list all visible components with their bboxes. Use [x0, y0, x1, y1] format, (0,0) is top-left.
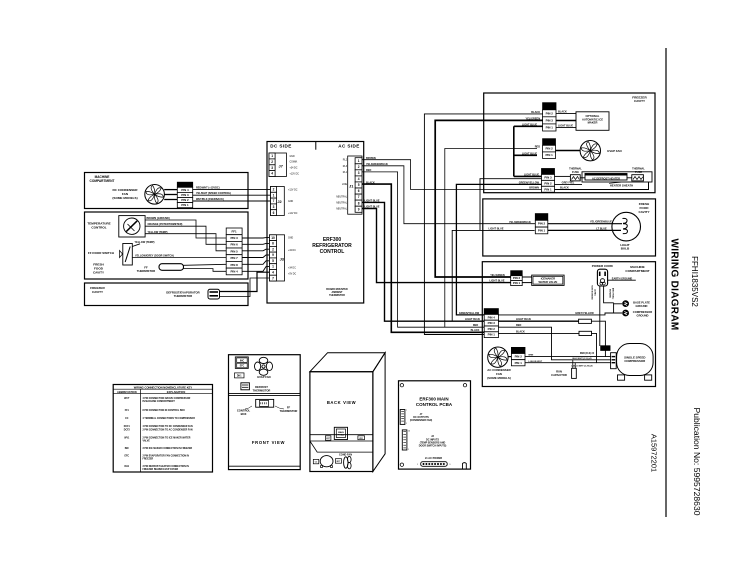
svg-text:BLACK: BLACK — [531, 111, 540, 114]
svg-text:(SOME MODELS): (SOME MODELS) — [112, 196, 137, 200]
svg-text:+34 DC: +34 DC — [288, 268, 296, 270]
svg-text:COMPRESSOR: COMPRESSOR — [624, 359, 646, 363]
svg-text:WV1: WV1 — [513, 271, 520, 275]
svg-text:LIGHT BLUE: LIGHT BLUE — [465, 318, 480, 321]
svg-text:BLACK: BLACK — [516, 330, 525, 333]
svg-text:THERMISTOR: THERMISTOR — [253, 388, 271, 392]
svg-text:BACK VIEW: BACK VIEW — [327, 400, 356, 405]
svg-text:IMC: IMC — [125, 448, 130, 450]
svg-text:YEL/WHT (SPEED CONTROL): YEL/WHT (SPEED CONTROL) — [196, 192, 231, 195]
svg-text:A15972201: A15972201 — [650, 434, 659, 472]
svg-text:+12V DC: +12V DC — [288, 213, 298, 215]
svg-text:GND: GND — [288, 201, 293, 203]
svg-text:2 PIN EVAPORATOR FAN CONNECTIO: 2 PIN EVAPORATOR FAN CONNECTION IN — [143, 455, 190, 458]
svg-text:AUTOMATIC ICE: AUTOMATIC ICE — [582, 117, 603, 121]
svg-text:PIN 3: PIN 3 — [181, 193, 189, 197]
svg-text:DC SIDE: DC SIDE — [270, 144, 291, 149]
svg-text:EFC: EFC — [546, 140, 553, 144]
svg-text:9: 9 — [272, 253, 274, 257]
svg-text:1: 1 — [406, 423, 407, 425]
svg-text:RED: RED — [535, 146, 540, 149]
svg-text:THERMISTOR: THERMISTOR — [174, 294, 192, 298]
svg-text:10: 10 — [408, 431, 410, 433]
svg-text:WV1: WV1 — [359, 438, 363, 440]
svg-text:+5V DC: +5V DC — [288, 274, 296, 276]
svg-text:CONTROL PCBA: CONTROL PCBA — [416, 402, 453, 407]
svg-text:PIN 6: PIN 6 — [230, 243, 238, 247]
svg-text:2: 2 — [272, 247, 274, 251]
svg-text:PIN 1: PIN 1 — [181, 203, 189, 207]
svg-text:4 PIN CONNECTION TO DC CONDENS: 4 PIN CONNECTION TO DC CONDENSER FAN — [143, 425, 193, 428]
svg-text:BRN: BRN — [529, 355, 534, 357]
svg-text:CAVITY: CAVITY — [93, 271, 105, 275]
svg-text:DCF1: DCF1 — [124, 426, 131, 428]
svg-text:YELLOW/GREY (DOOR SWITCH): YELLOW/GREY (DOOR SWITCH) — [135, 254, 174, 257]
svg-text:7: 7 — [358, 195, 360, 199]
svg-text:+34 DC: +34 DC — [290, 168, 298, 170]
svg-text:PIN 1: PIN 1 — [546, 126, 554, 130]
svg-text:AC SIDE: AC SIDE — [338, 144, 359, 149]
svg-text:FF DOOR SWITCH: FF DOOR SWITCH — [88, 251, 114, 255]
svg-text:DH1: DH1 — [545, 170, 551, 174]
svg-text:ERF300 MAIN: ERF300 MAIN — [419, 396, 448, 401]
svg-text:4: 4 — [271, 172, 273, 176]
svg-text:DCF2: DCF2 — [124, 430, 131, 432]
svg-text:IMC: IMC — [547, 104, 553, 108]
svg-text:COMM.: COMM. — [290, 162, 298, 164]
svg-text:3 PIN DEFROST HEATER CONNECTIO: 3 PIN DEFROST HEATER CONNECTION IN — [143, 465, 190, 468]
svg-text:FREEZER BEHIND EVAP COVER: FREEZER BEHIND EVAP COVER — [143, 468, 179, 471]
svg-text:PIN 2: PIN 2 — [546, 111, 554, 115]
svg-text:WCT: WCT — [124, 398, 130, 400]
svg-text:PIN 3: PIN 3 — [230, 236, 238, 240]
svg-text:FRONT VIEW: FRONT VIEW — [252, 440, 285, 445]
svg-text:DEFROST: DEFROST — [255, 385, 268, 389]
svg-text:ORANGE (POTENTIOMETER): ORANGE (POTENTIOMETER) — [148, 223, 183, 226]
svg-text:LT BLUE: LT BLUE — [596, 227, 607, 230]
svg-text:(CONDENSER FAN): (CONDENSER FAN) — [410, 419, 433, 422]
svg-text:BLACK: BLACK — [560, 187, 569, 190]
svg-text:ERF300: ERF300 — [323, 237, 342, 243]
svg-text:4: 4 — [272, 271, 274, 275]
svg-text:5: 5 — [272, 259, 274, 263]
svg-text:WATER VALVE: WATER VALVE — [538, 280, 557, 284]
svg-text:PIN 1: PIN 1 — [515, 361, 523, 365]
svg-text:PIN 2: PIN 2 — [515, 355, 523, 359]
svg-text:4: 4 — [358, 177, 360, 181]
svg-text:MAKER: MAKER — [588, 121, 598, 125]
svg-text:RED: RED — [473, 324, 478, 327]
svg-text:CAPACITOR: CAPACITOR — [551, 373, 567, 377]
svg-text:BOX: BOX — [241, 412, 247, 416]
svg-text:VALVE: VALVE — [143, 439, 151, 442]
svg-text:PIN 2: PIN 2 — [488, 327, 496, 331]
svg-text:CONTROL: CONTROL — [237, 409, 251, 413]
svg-text:YEL/GREEN/BLUE: YEL/GREEN/BLUE — [590, 221, 612, 224]
svg-text:FF1: FF1 — [232, 229, 238, 233]
svg-text:PIN 1: PIN 1 — [513, 281, 521, 285]
svg-text:RED: RED — [516, 324, 521, 327]
svg-text:1: 1 — [408, 449, 409, 451]
svg-text:YEL/GREEN: YEL/GREEN — [526, 117, 541, 120]
svg-text:EFC: EFC — [240, 366, 245, 368]
svg-text:PIN 7: PIN 7 — [230, 256, 238, 260]
svg-text:PIN 8: PIN 8 — [230, 263, 238, 267]
svg-text:CONTROL: CONTROL — [320, 249, 345, 255]
svg-text:LIGHT BLUE: LIGHT BLUE — [490, 280, 505, 283]
svg-text:PIN 2: PIN 2 — [181, 198, 189, 202]
svg-text:EXPLANATION: EXPLANATION — [167, 390, 186, 394]
svg-text:LIGHT BLUE: LIGHT BLUE — [522, 152, 537, 155]
svg-text:Publication No: 5995728630: Publication No: 5995728630 — [692, 408, 702, 516]
svg-text:DOOR SWITCH INPUTS): DOOR SWITCH INPUTS) — [419, 445, 447, 448]
svg-text:(NEUTRAL): (NEUTRAL) — [611, 288, 614, 300]
svg-text:FF1: FF1 — [125, 410, 130, 412]
svg-text:POWER CORD: POWER CORD — [592, 264, 614, 268]
svg-text:5: 5 — [358, 183, 360, 187]
svg-text:FUSE: FUSE — [572, 170, 579, 174]
svg-text:4 TERMINAL CONNECTIONS TO COMP: 4 TERMINAL CONNECTIONS TO COMPRESSOR — [143, 417, 196, 420]
svg-text:WIRING DIAGRAM: WIRING DIAGRAM — [669, 239, 680, 331]
svg-text:COND FAN: COND FAN — [339, 453, 352, 456]
svg-text:PIN 3: PIN 3 — [544, 175, 552, 179]
svg-text:LIGHT BLUE: LIGHT BLUE — [489, 227, 504, 230]
svg-text:8 PIN CONNECTION IN CONTROL BO: 8 PIN CONNECTION IN CONTROL BOX — [143, 410, 186, 412]
svg-text:7: 7 — [406, 410, 407, 412]
svg-text:9: 9 — [358, 207, 360, 211]
svg-text:THERMISTOR: THERMISTOR — [329, 294, 345, 297]
svg-text:NEUTRAL: NEUTRAL — [336, 201, 347, 204]
svg-text:EVAP FAN: EVAP FAN — [257, 375, 270, 379]
svg-text:1: 1 — [358, 159, 360, 163]
svg-text:GROUND: GROUND — [636, 304, 648, 308]
svg-text:+12V DC: +12V DC — [288, 190, 298, 192]
svg-text:CAVITY: CAVITY — [92, 290, 104, 294]
svg-text:1: 1 — [417, 464, 418, 466]
svg-text:DCF2: DCF2 — [514, 349, 522, 353]
svg-text:OPTIONAL: OPTIONAL — [586, 114, 600, 118]
svg-text:RL3: RL3 — [343, 166, 348, 168]
svg-text:2: 2 — [358, 165, 360, 169]
svg-text:RED (R-S) #4: RED (R-S) #4 — [580, 352, 595, 355]
svg-text:COMPARTMENT: COMPARTMENT — [90, 179, 115, 183]
svg-text:3: 3 — [271, 166, 273, 170]
svg-text:6: 6 — [273, 211, 275, 215]
svg-text:GREY/YEL: GREY/YEL — [562, 181, 575, 184]
svg-text:(SOME MODELS): (SOME MODELS) — [487, 376, 511, 380]
svg-text:BULB: BULB — [621, 247, 630, 251]
svg-text:NON BONDED: NON BONDED — [591, 285, 593, 300]
svg-text:YEL/GREEN: YEL/GREEN — [490, 274, 505, 277]
svg-text:10: 10 — [271, 236, 275, 240]
svg-text:NEUTRAL: NEUTRAL — [336, 208, 347, 211]
svg-text:PIN 5: PIN 5 — [230, 249, 238, 253]
svg-text:6: 6 — [272, 242, 274, 246]
svg-text:CAVITY: CAVITY — [638, 210, 650, 214]
svg-text:DH1: DH1 — [237, 376, 242, 378]
svg-text:BLACK: BLACK — [558, 110, 567, 113]
svg-text:J1 AC POWER: J1 AC POWER — [425, 457, 442, 460]
svg-text:LINE: LINE — [342, 184, 348, 186]
svg-text:EVAP FAN: EVAP FAN — [607, 149, 621, 153]
svg-text:THERMISTOR: THERMISTOR — [280, 409, 298, 413]
svg-text:FF: FF — [287, 406, 291, 410]
svg-text:RED/WHT (+12VDC): RED/WHT (+12VDC) — [196, 186, 220, 189]
svg-text:PIN 3: PIN 3 — [488, 321, 496, 325]
svg-text:MAIN: MAIN — [338, 431, 344, 434]
svg-text:FFHI1835VS2: FFHI1835VS2 — [690, 256, 699, 307]
svg-text:BLACK: BLACK — [471, 329, 480, 332]
svg-text:DCF1: DCF1 — [181, 183, 189, 187]
svg-text:FFC: FFC — [539, 215, 546, 219]
svg-text:BROWN (GROUND): BROWN (GROUND) — [147, 217, 170, 220]
svg-text:GROUND: GROUND — [637, 313, 649, 317]
svg-text:7: 7 — [273, 199, 275, 203]
svg-text:LIGHT BLUE: LIGHT BLUE — [524, 174, 539, 177]
svg-text:PIN 1: PIN 1 — [538, 229, 546, 233]
svg-text:PIN 1: PIN 1 — [488, 333, 496, 337]
svg-text:1: 1 — [272, 265, 274, 269]
svg-text:FREEZER: FREEZER — [143, 458, 154, 460]
svg-text:EARTH GROUND: EARTH GROUND — [612, 277, 633, 280]
svg-text:RL1: RL1 — [343, 172, 348, 174]
svg-text:RUN: RUN — [556, 369, 562, 373]
svg-text:PIN 2: PIN 2 — [544, 181, 552, 185]
svg-text:COMPARTMENT: COMPARTMENT — [625, 269, 649, 273]
svg-text:PIN 3: PIN 3 — [546, 118, 554, 122]
svg-text:3: 3 — [273, 205, 275, 209]
svg-text:GND: GND — [288, 238, 293, 240]
svg-text:PIN 4: PIN 4 — [230, 270, 238, 274]
svg-text:PIN 2: PIN 2 — [538, 222, 546, 226]
svg-text:2: 2 — [273, 188, 275, 192]
svg-text:3: 3 — [358, 171, 360, 175]
svg-text:L.BLUE-WHT: L.BLUE-WHT — [529, 361, 543, 363]
svg-text:ABBREVIATION: ABBREVIATION — [117, 390, 137, 394]
svg-text:HEATER SHEATH: HEATER SHEATH — [610, 184, 633, 188]
svg-text:J7: J7 — [279, 163, 283, 168]
svg-text:ICEMAKER: ICEMAKER — [541, 277, 555, 281]
svg-text:CAVITY: CAVITY — [634, 99, 646, 103]
svg-text:4 PIN CONNECTION ABOVE COMPRES: 4 PIN CONNECTION ABOVE COMPRESSOR — [143, 397, 191, 400]
svg-text:RL2: RL2 — [343, 160, 348, 162]
svg-text:PIN 1: PIN 1 — [544, 187, 552, 191]
svg-text:8: 8 — [358, 201, 360, 205]
svg-text:YELLOW (TEMP): YELLOW (TEMP) — [135, 241, 155, 244]
svg-text:7: 7 — [272, 276, 274, 280]
svg-text:L.BLU-WHT (C-R) #6: L.BLU-WHT (C-R) #6 — [571, 366, 593, 368]
svg-text:REFRIGERATOR: REFRIGERATOR — [312, 243, 352, 249]
svg-text:CONTROL: CONTROL — [91, 225, 106, 229]
svg-text:EFC: EFC — [124, 456, 129, 458]
svg-text:+12V DC: +12V DC — [290, 174, 300, 176]
svg-text:2 PIN CONNECTION TO AC CONDENS: 2 PIN CONNECTION TO AC CONDENSER FAN — [143, 429, 193, 432]
svg-text:BONDED: BONDED — [609, 289, 611, 299]
svg-text:GND: GND — [290, 156, 295, 158]
svg-text:LIGHT BLUE: LIGHT BLUE — [522, 123, 537, 126]
svg-text:PIN 1: PIN 1 — [545, 153, 553, 157]
svg-text:BLK-WHT (C-S) #5: BLK-WHT (C-S) #5 — [572, 358, 592, 360]
svg-text:WIRING CONNECTION NOMENCLATURE: WIRING CONNECTION NOMENCLATURE KEY — [134, 385, 193, 389]
svg-text:PIN 2: PIN 2 — [513, 276, 521, 280]
svg-text:BROWN: BROWN — [529, 187, 539, 190]
svg-text:WHT/BLK (FEEDBACK): WHT/BLK (FEEDBACK) — [196, 198, 224, 201]
svg-text:NEUTRAL: NEUTRAL — [336, 195, 347, 198]
svg-text:IMC: IMC — [240, 360, 245, 362]
svg-text:9: 9 — [450, 464, 451, 466]
svg-text:+34 DC: +34 DC — [288, 250, 296, 252]
svg-text:PIN 4: PIN 4 — [488, 315, 496, 319]
svg-text:1: 1 — [271, 154, 273, 158]
svg-text:(LINE): (LINE) — [593, 289, 595, 295]
svg-text:IN MACHINE COMPARTMENT: IN MACHINE COMPARTMENT — [143, 400, 176, 403]
svg-text:GREEN/YELLOW: GREEN/YELLOW — [459, 312, 480, 315]
svg-text:GREY/YELLOW: GREY/YELLOW — [575, 312, 594, 315]
svg-text:2 PIN CONNECTION TO ICE MAKER: 2 PIN CONNECTION TO ICE MAKER WATER — [143, 437, 191, 440]
svg-text:AC DEFROST HEATER: AC DEFROST HEATER — [592, 176, 620, 180]
svg-text:2: 2 — [271, 160, 273, 164]
svg-text:CC: CC — [125, 418, 129, 420]
svg-text:WCT: WCT — [488, 310, 495, 314]
svg-text:CC: CC — [604, 348, 608, 351]
svg-text:GREEN/YELLOW: GREEN/YELLOW — [519, 182, 540, 185]
svg-text:YEL/GREEN/BLUE: YEL/GREEN/BLUE — [509, 221, 531, 224]
svg-text:1: 1 — [273, 193, 275, 197]
svg-text:LIGHT BLUE: LIGHT BLUE — [516, 318, 531, 321]
svg-text:THERMISTOR: THERMISTOR — [137, 269, 155, 273]
svg-text:3 PIN ICE MAKER CONNECTION IN: 3 PIN ICE MAKER CONNECTION IN FREEZER — [143, 447, 193, 450]
svg-text:PIN 4: PIN 4 — [181, 188, 189, 192]
svg-text:PCBA: PCBA — [338, 434, 345, 437]
svg-text:6: 6 — [358, 189, 360, 193]
svg-text:WV1: WV1 — [124, 438, 130, 440]
svg-text:DH1: DH1 — [124, 466, 129, 468]
svg-text:LIGHT BLUE: LIGHT BLUE — [558, 125, 573, 128]
svg-text:PIN 2: PIN 2 — [545, 147, 553, 151]
